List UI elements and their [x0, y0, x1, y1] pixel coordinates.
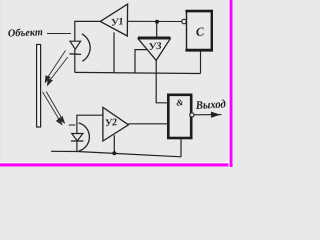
wire K bottom lead to bottom rail [180, 139, 182, 158]
amplifier У1 [100, 4, 127, 36]
photodiode VD1 (emitter) top lead [75, 21, 100, 41]
light ray 1 from emitter to object [45, 51, 65, 83]
junction dot on У1 output wire [155, 20, 159, 24]
scan page edge: magenta band right [230, 0, 233, 167]
photodiode VD1 bottom lead [74, 49, 76, 72]
wire У1 output to C block [128, 20, 183, 22]
small tick near photodiode 2 window [69, 124, 76, 126]
scan page edge: magenta band bottom [0, 163, 233, 166]
scan page edge: light magenta right column [231, 0, 234, 167]
svg-text:&: & [176, 97, 184, 108]
photodiode VD1 housing arc [82, 34, 90, 61]
amplifier У3 (inverter, points down) [138, 37, 170, 40]
scan page edge: light magenta bottom row [0, 165, 233, 168]
wire У3 output down to K block input 1 [156, 60, 169, 102]
light ray 4 reflected to photodiode [46, 92, 64, 123]
photodiode VD2 housing arc [79, 123, 90, 151]
input circle on block C [182, 19, 187, 24]
block C (capacitor/storage unit) [185, 10, 213, 52]
logic block K (AND gate) [168, 95, 191, 138]
svg-text:У2: У2 [105, 117, 118, 129]
wire У1 lower lead to bus [113, 32, 115, 73]
leader line from Объект label [47, 33, 71, 35]
common bus wire (lower rail of upper section) [75, 72, 201, 73]
photodiode VD2 bottom lead [76, 141, 78, 151]
photodiode VD1 triangle [70, 41, 81, 49]
light ray 3 reflected to photodiode [43, 92, 62, 125]
wire У3 input from bus [135, 50, 147, 73]
wire У2 output to K block input 2 [129, 123, 169, 125]
output inversion circle on K [190, 113, 194, 117]
light ray 2 from emitter to object [48, 57, 68, 85]
scan page edge: white separator right [228, 0, 229, 167]
object plate (screen) [37, 45, 41, 128]
amplifier У2 [103, 107, 129, 141]
junction dot on bottom rail [112, 151, 116, 155]
wire junction to У3 top [156, 22, 158, 38]
bottom rail wire [51, 151, 181, 157]
photodiode VD2 cathode bar [71, 140, 84, 142]
svg-text:Объект: Объект [8, 27, 43, 39]
wire C block bottom to bus [200, 51, 202, 74]
photodiode VD1 cathode bar [69, 53, 81, 56]
svg-text:У3: У3 [148, 41, 162, 53]
scan page edge: white separator bottom [0, 162, 233, 164]
svg-text:Выход: Выход [195, 98, 227, 112]
wire У2 lower lead to bottom rail [113, 135, 115, 153]
photodiode VD2 (receiver) top lead and wire to У2 input [77, 115, 103, 133]
photodiode VD2 triangle [72, 134, 83, 141]
svg-text:У1: У1 [111, 16, 125, 28]
output wire with arrow [194, 112, 221, 117]
